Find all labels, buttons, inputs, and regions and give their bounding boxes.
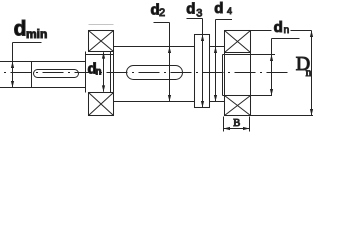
keyway 1 [34,70,79,78]
svg-text:4: 4 [227,6,232,16]
svg-text:min: min [26,27,47,41]
bearing 2 seat bottom edge [223,95,273,97]
svg-text:2: 2 [159,7,165,19]
bearing 1 bottom box X [89,93,114,116]
bearing 2 bottom box X [225,96,251,116]
svg-text:3: 3 [196,8,202,20]
dimension line d3 [201,19,204,108]
shaft section 4 bottom edge [210,101,225,103]
svg-text:d: d [186,0,195,17]
bearing 1 bottom box [89,93,114,116]
svg-text:d: d [214,0,223,17]
dimension line d2 [168,23,171,102]
svg-text:B: B [233,118,240,129]
bearing 2 bottom box [225,96,251,116]
bearing 2 top box X [225,31,251,53]
dimension line d4 [214,20,217,102]
bearing 1 right edge / step to section 2 [113,31,115,116]
shaft section 2 top edge [114,46,195,48]
svg-text:n: n [95,67,101,78]
bearing 2 top box [225,31,251,53]
bearing 2 left edge between boxes [224,53,226,96]
shaft section 4 top edge [210,46,225,48]
dimension B extension left [223,117,225,132]
shaft section 1 bottom edge [0,87,86,89]
collar section 3 outline [195,35,210,108]
dimension line B [224,127,250,130]
dimension d_n right leader shelf [272,38,300,40]
centerline [2,72,291,74]
Dn bottom extension line [251,115,314,117]
dimension d4 leader shelf [216,19,233,21]
bearing 2 inner ring line [222,55,224,96]
bearing 1 seat top edge [86,54,114,56]
shaft section 1 top edge [0,61,86,63]
step to bearing seat 1 [85,52,87,93]
dimension line d_n right [270,39,273,96]
svg-text:d: d [274,19,283,36]
scan ghost line above bearing 1 [89,24,114,26]
shaft section 2 bottom edge [114,101,195,103]
bearing 2 seat top edge [223,54,276,56]
bearing 1 top box X [89,31,114,52]
Dn top extension line left segment [251,30,272,32]
svg-text:d: d [14,18,27,41]
dimension d_min leader shelf [13,42,42,44]
svg-text:n: n [284,25,290,36]
bearing 2 right edge between boxes [250,53,252,96]
dimension B extension right [249,117,251,132]
bearing 1 inner ring line [110,52,112,93]
bearing 1 top box [89,31,114,52]
dimension d2 leader shelf [154,22,170,24]
keyway 2 [127,66,183,80]
dimension line d_min [11,43,14,88]
dimension line d_n left [102,52,105,92]
dimension d3 leader shelf [187,18,203,20]
svg-text:n: n [306,67,312,79]
shaft section 1 transverse line [31,62,33,88]
Dn top extension line right segment [291,30,312,32]
dimension line Dn [310,31,313,116]
